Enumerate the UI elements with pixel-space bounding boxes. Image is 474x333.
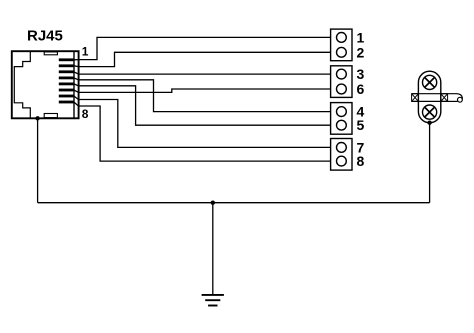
- pin 4: [59, 77, 74, 80]
- terminal block group 7-8: [331, 139, 352, 171]
- wire pin2 to terminal 2: [74, 52, 331, 66]
- svg-text:2: 2: [357, 44, 365, 60]
- wire pin5 to terminal 5: [74, 84, 331, 125]
- svg-text:6: 6: [357, 81, 365, 97]
- lamp assembly middle band: [412, 94, 448, 102]
- lamp assembly body: [418, 71, 440, 123]
- wire pin3 to terminal 3: [74, 72, 331, 74]
- wire pin1 to terminal 1: [74, 37, 331, 59]
- node RJ45 shield junction: [35, 116, 39, 120]
- node lamp bottom junction: [427, 121, 431, 125]
- plug tip: [448, 94, 463, 102]
- svg-text:8: 8: [357, 153, 365, 169]
- wire RJ45 shield to ground bus: [37, 118, 39, 202]
- terminal block group 1-2: [331, 29, 352, 61]
- pin 8: [59, 101, 74, 104]
- svg-text:1: 1: [82, 45, 89, 59]
- svg-text:8: 8: [82, 107, 89, 121]
- connector RJ45 J1 body: [12, 51, 79, 118]
- wire pin8 to terminal 8: [74, 102, 331, 161]
- svg-text:3: 3: [357, 66, 365, 82]
- pin 1: [59, 58, 74, 61]
- lamp L2: [423, 105, 437, 119]
- svg-text:RJ45: RJ45: [27, 28, 63, 45]
- node ground junction: [211, 201, 215, 205]
- pin 2: [59, 64, 74, 67]
- wire ground bus: [38, 202, 430, 204]
- hatched mount right: [441, 94, 448, 102]
- terminal block group 3-6: [331, 66, 352, 98]
- pin 5: [59, 83, 74, 86]
- pin 6: [59, 89, 74, 92]
- wire pin7 to terminal 7: [74, 96, 331, 147]
- wire pin6 to terminal 6: [74, 89, 331, 92]
- wire ground stem: [212, 203, 214, 295]
- wire pin4 to terminal 4: [74, 78, 331, 112]
- ground: [202, 295, 224, 306]
- lamp L1: [423, 75, 437, 89]
- svg-text:5: 5: [357, 117, 365, 133]
- pin 3: [59, 70, 74, 73]
- hatched mount left: [412, 94, 419, 102]
- svg-text:1: 1: [357, 29, 365, 45]
- wire lamp to ground bus: [429, 123, 431, 203]
- terminal block group 4-5: [331, 103, 352, 135]
- pin 7: [59, 95, 74, 98]
